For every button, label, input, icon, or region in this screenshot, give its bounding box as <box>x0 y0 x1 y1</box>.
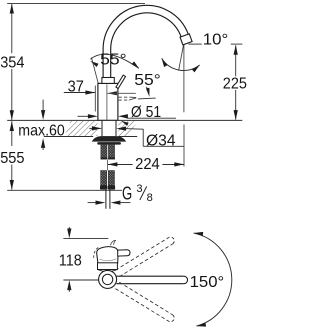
shank through deck <box>102 121 116 137</box>
svg-text:max.60: max.60 <box>18 123 65 140</box>
dimension 354 vertical line <box>10 4 14 121</box>
svg-text:555: 555 <box>0 150 24 167</box>
svg-text:Ø 51: Ø 51 <box>131 104 161 121</box>
svg-text:3: 3 <box>136 183 142 195</box>
extension line: bottom of hoses (555 lower ref) <box>7 189 122 191</box>
top view: spout ring inner circle <box>102 274 112 284</box>
label 55 deg (lower) <box>134 72 161 89</box>
top view: dashed lever alt position <box>94 248 99 260</box>
svg-text:354: 354 <box>0 54 24 71</box>
top view: lever knob <box>97 247 118 264</box>
svg-text:118: 118 <box>59 253 82 270</box>
centerline below deck <box>107 160 109 171</box>
G3/8 thread arrows <box>88 200 131 204</box>
top view: body circle <box>99 270 117 288</box>
water stream vertical reference line <box>183 45 185 112</box>
svg-text:8: 8 <box>147 192 153 204</box>
label 225 <box>223 75 247 92</box>
leader of lower 55 deg label <box>138 87 156 99</box>
leader line for 10 deg label <box>189 43 243 45</box>
label O51 <box>131 104 161 121</box>
O51 underline leader <box>121 118 176 126</box>
mounting flange under deck <box>92 136 125 144</box>
svg-text:10°: 10° <box>203 32 229 49</box>
svg-text:G: G <box>122 183 132 203</box>
label 37 <box>68 79 84 96</box>
svg-text:224: 224 <box>135 156 160 173</box>
dimension 37 arrow <box>64 90 95 94</box>
extension line: top of spout (354 upper ref) <box>7 3 145 5</box>
spout tube (high arc) <box>103 5 188 77</box>
body centerline <box>106 84 108 120</box>
label G 3/8 <box>122 183 153 204</box>
label max.60 <box>18 123 65 140</box>
dimension 224 line <box>108 162 185 166</box>
dashed lever phantom position <box>119 97 137 100</box>
extension line right for 224 (water line below deck) <box>183 124 185 166</box>
top view: cartridge housing <box>98 263 118 272</box>
top view: spout tube (solid position) <box>116 276 187 284</box>
faucet body <box>98 83 118 120</box>
label 10 deg <box>203 32 229 49</box>
svg-text:Ø34: Ø34 <box>146 132 176 149</box>
top view: dashed spout swivel position upper <box>115 237 174 277</box>
dimension 555 vertical line <box>10 121 14 190</box>
label 150 deg <box>190 274 225 291</box>
flexible connection hoses <box>101 171 115 186</box>
top-view extension line front (lever) <box>63 238 108 240</box>
lever swing arc 55 deg <box>90 54 139 68</box>
nozzle axis line tilted 10 deg <box>179 45 184 71</box>
connection pipe G3/8 <box>106 190 110 209</box>
lever handle <box>116 75 126 88</box>
swivel range arc 150 deg <box>194 232 232 327</box>
inner arrow at centerline <box>107 91 136 95</box>
label 118 <box>59 253 82 270</box>
O34 leader corner and underline <box>143 129 184 146</box>
deck bottom line <box>44 136 137 138</box>
dimension 118 arrows <box>67 227 71 292</box>
deck top line <box>7 119 242 121</box>
svg-text:150°: 150° <box>190 274 225 291</box>
hose end nuts <box>100 185 115 189</box>
label 354 <box>0 54 24 71</box>
svg-text:55°: 55° <box>134 72 161 89</box>
threaded mounting studs <box>101 144 115 159</box>
lever axis ray <box>91 57 98 83</box>
svg-text:37: 37 <box>68 79 84 96</box>
top view: lever grip <box>118 250 130 256</box>
svg-text:225: 225 <box>223 75 247 92</box>
svg-text:55°: 55° <box>100 52 127 69</box>
dimension O51 arrows at body <box>78 114 128 118</box>
top view: dashed spout swivel position lower <box>115 282 174 322</box>
label 55 deg (upper) <box>100 52 127 69</box>
dimension max.60 arrows <box>41 100 45 150</box>
cartridge collar <box>102 78 114 84</box>
top-view extension line spout axis <box>63 279 98 281</box>
label 224 <box>135 156 160 173</box>
top view: small curl above lever <box>110 240 116 245</box>
deck hatching <box>65 121 139 136</box>
spout nozzle / mousseur <box>180 34 192 45</box>
dimension O34 arrows <box>89 126 143 131</box>
label O34 <box>146 132 176 149</box>
label 555 <box>0 150 24 167</box>
extension line for 37 <box>94 86 96 112</box>
spout angle arc with arrowheads <box>162 58 200 72</box>
dimension 225 vertical line <box>234 45 238 120</box>
